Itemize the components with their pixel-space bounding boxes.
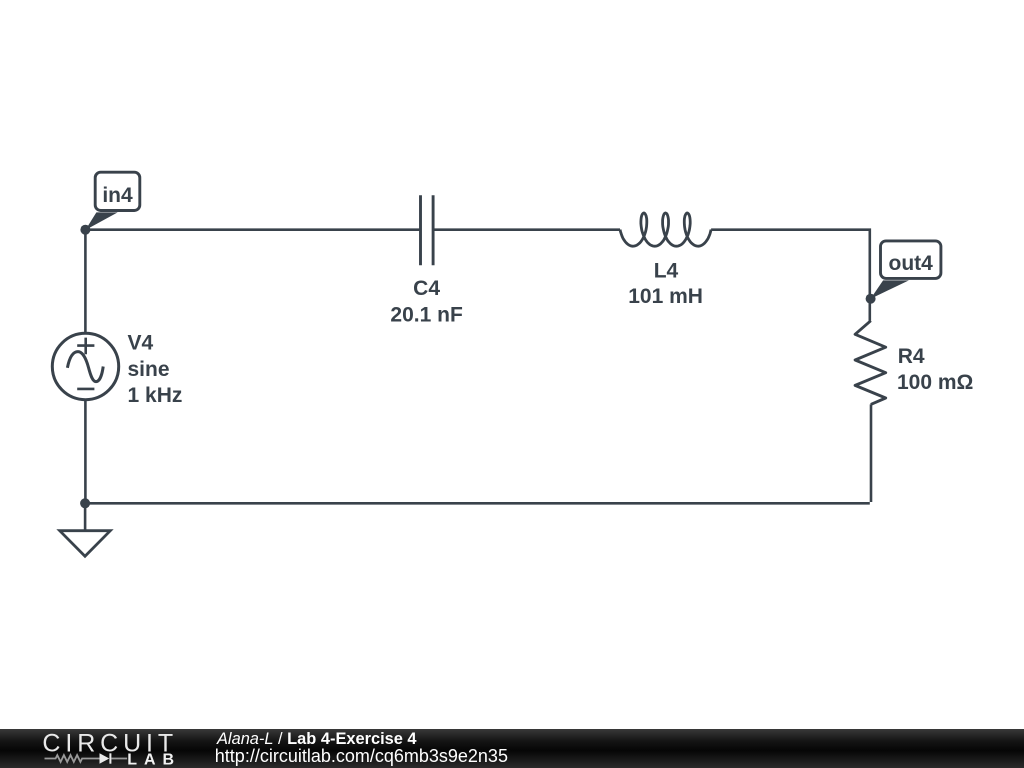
svg-text:http://circuitlab.com/cq6mb3s9: http://circuitlab.com/cq6mb3s9e2n35 bbox=[215, 746, 508, 766]
svg-text:LAB: LAB bbox=[127, 751, 181, 768]
